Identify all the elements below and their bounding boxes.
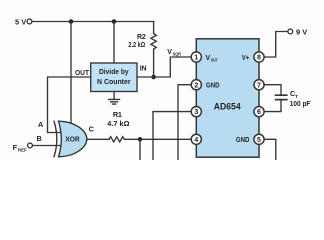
wire pin7 to capacitor bbox=[264, 85, 281, 95]
gate XOR body bbox=[59, 121, 87, 157]
svg-text:9 V: 9 V bbox=[296, 27, 308, 36]
divide by N counter box bbox=[91, 63, 137, 92]
wire pin8 to 9V bbox=[264, 32, 288, 58]
gate XOR outer arc bbox=[54, 121, 57, 157]
svg-text:6: 6 bbox=[257, 109, 261, 116]
wire capacitor to pin6 bbox=[264, 100, 281, 111]
svg-text:GND: GND bbox=[236, 137, 250, 144]
svg-text:2: 2 bbox=[194, 82, 198, 89]
wire 5V supply drop to XOR bbox=[70, 22, 72, 124]
wire XOR output C through R1 to pin4 bbox=[87, 138, 110, 140]
wire node to pin 1 (Vsqr) bbox=[154, 57, 192, 77]
svg-text:REF: REF bbox=[18, 148, 27, 153]
wire pin3 drop bbox=[153, 112, 191, 160]
terminal 5V bbox=[27, 19, 32, 24]
wire drop from pin4 node bbox=[139, 139, 141, 160]
resistor R2 2.2k vertical bbox=[151, 22, 156, 78]
svg-text:V+: V+ bbox=[242, 55, 250, 62]
pin 4 bbox=[191, 134, 201, 144]
wire IN from R2 node bbox=[137, 76, 154, 78]
svg-text:Divide by: Divide by bbox=[99, 67, 129, 76]
svg-text:4: 4 bbox=[194, 137, 198, 144]
svg-text:XOR: XOR bbox=[65, 135, 80, 144]
svg-text:IN: IN bbox=[140, 65, 147, 72]
capacitor CT plates bbox=[276, 95, 287, 99]
svg-text:N Counter: N Counter bbox=[97, 77, 131, 86]
pin 2 bbox=[191, 80, 201, 90]
svg-text:R2: R2 bbox=[137, 34, 146, 41]
pin 8 bbox=[254, 52, 264, 62]
pin 6 bbox=[254, 107, 264, 117]
svg-text:100 pF: 100 pF bbox=[290, 101, 311, 108]
svg-text:2.2 kΩ: 2.2 kΩ bbox=[128, 42, 145, 49]
wire pin2 GND drop bbox=[178, 85, 191, 160]
svg-text:3: 3 bbox=[194, 109, 198, 116]
svg-text:5 V: 5 V bbox=[15, 17, 27, 26]
svg-text:8: 8 bbox=[257, 55, 261, 62]
pin 3 bbox=[191, 107, 201, 117]
resistor R1 4.7k horizontal bbox=[109, 137, 191, 142]
junction dot at x=114 bbox=[112, 19, 117, 24]
pin 1 bbox=[191, 52, 201, 62]
svg-text:1: 1 bbox=[194, 55, 198, 62]
wire 5V top rail bbox=[32, 21, 154, 23]
wire OUT to XOR input A bbox=[48, 77, 91, 133]
junction dot pin4 wire bbox=[138, 137, 143, 142]
svg-text:A: A bbox=[38, 120, 44, 129]
terminal 9V bbox=[288, 29, 293, 34]
wire 5V drop to divider box bbox=[113, 22, 115, 64]
svg-text:B: B bbox=[37, 134, 42, 143]
pin 7 bbox=[254, 80, 264, 90]
svg-text:AD654: AD654 bbox=[214, 102, 241, 112]
terminal Fref bbox=[28, 143, 33, 148]
svg-text:SQR: SQR bbox=[173, 52, 182, 57]
junction dot at x=71 bbox=[69, 19, 74, 24]
wire pin5 drop bbox=[264, 139, 276, 160]
svg-text:F: F bbox=[13, 143, 18, 152]
svg-text:5: 5 bbox=[257, 137, 261, 144]
svg-text:OUT: OUT bbox=[75, 70, 90, 77]
svg-text:V: V bbox=[167, 49, 172, 56]
ground (divider box) bbox=[109, 92, 120, 105]
IC AD654 bbox=[196, 39, 259, 157]
svg-text:GND: GND bbox=[206, 83, 220, 90]
svg-text:T: T bbox=[295, 94, 298, 99]
svg-text:C: C bbox=[89, 124, 95, 133]
svg-text:OUT: OUT bbox=[211, 58, 218, 63]
wire XOR input B from Fref bbox=[32, 145, 60, 147]
svg-text:R1: R1 bbox=[113, 110, 122, 119]
svg-text:4.7 kΩ: 4.7 kΩ bbox=[107, 121, 130, 128]
junction dot R2 bottom bbox=[151, 75, 156, 80]
svg-text:7: 7 bbox=[257, 82, 261, 89]
pin 5 bbox=[254, 134, 264, 144]
